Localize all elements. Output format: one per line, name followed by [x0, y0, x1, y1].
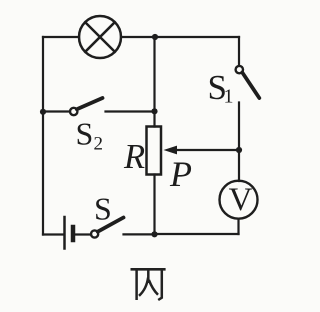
svg-text:2: 2	[94, 134, 104, 155]
battery cell: long plate	[63, 217, 66, 249]
svg-text:P: P	[169, 154, 192, 194]
label S2	[76, 116, 104, 155]
resistor R (rheostat body)	[147, 127, 162, 175]
wire middle vertical upper (top junction to resistor)	[153, 37, 155, 127]
wire slider tap horizontal	[176, 149, 239, 151]
wire voltmeter bottom to bottom-right corner	[237, 219, 239, 234]
label S1	[208, 68, 234, 108]
wire bottom horizontal (junction to switch S)	[124, 233, 155, 235]
node: junction at slider tap	[236, 147, 242, 153]
svg-text:V: V	[229, 182, 253, 218]
node: junction S2 branch on middle wire	[151, 108, 157, 114]
node: junction S2 branch on left wire	[40, 109, 46, 115]
svg-text:R: R	[123, 138, 145, 176]
slider arrowhead pointing at R	[164, 146, 178, 155]
wire middle vertical lower (resistor to bottom wire)	[153, 175, 155, 235]
svg-text:1: 1	[224, 86, 234, 108]
wire battery to switch S	[75, 233, 91, 235]
figure label 丙 (drawn strokes)	[131, 269, 166, 300]
node: top junction of middle branch	[152, 34, 158, 40]
node: bottom junction of middle branch	[151, 231, 157, 237]
battery cell: short thick plate	[71, 227, 76, 240]
svg-text:S: S	[94, 191, 112, 227]
wire bottom-left (left corner to battery)	[43, 233, 63, 235]
wire S2 branch horizontal left part	[43, 110, 70, 112]
wire left vertical	[42, 37, 44, 235]
wire right vertical upper (corner to switch S1)	[238, 37, 240, 66]
wire bottom horizontal (right corner to junction)	[155, 233, 239, 235]
lamp L (circle with X)	[79, 16, 121, 58]
switch S (open circle and lever)	[91, 218, 124, 238]
switch S2 (open circle and lever)	[70, 98, 103, 115]
wire top horizontal (lamp to top-right corner)	[121, 36, 239, 38]
switch S1 (open circle and lever)	[236, 66, 260, 98]
wire S2 branch horizontal right part	[106, 110, 155, 112]
wire top-left horizontal (left corner to lamp)	[43, 36, 79, 38]
wire right vertical (below S1 to voltmeter)	[238, 103, 240, 182]
voltmeter V	[220, 181, 258, 219]
svg-text:S: S	[76, 116, 94, 152]
